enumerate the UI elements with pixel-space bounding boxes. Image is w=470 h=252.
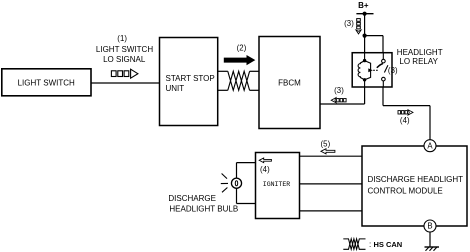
svg-text:IGNITER: IGNITER (263, 181, 290, 188)
svg-text:LO SIGNAL: LO SIGNAL (103, 55, 146, 64)
svg-text:DISCHARGE: DISCHARGE (168, 194, 216, 203)
svg-text:HEADLIGHT BULB: HEADLIGHT BULB (169, 205, 238, 214)
svg-text:LIGHT SWITCH: LIGHT SWITCH (96, 45, 153, 54)
svg-text:(3): (3) (344, 19, 354, 28)
svg-text:(5): (5) (320, 140, 330, 149)
svg-text:(4): (4) (260, 165, 270, 174)
svg-text:B+: B+ (358, 1, 369, 10)
svg-text:LO RELAY: LO RELAY (399, 57, 438, 66)
svg-text:(3): (3) (334, 86, 344, 95)
svg-text:B: B (427, 222, 432, 231)
svg-text:UNIT: UNIT (166, 84, 185, 93)
svg-text:CONTROL MODULE: CONTROL MODULE (368, 186, 443, 195)
svg-text:FBCM: FBCM (278, 79, 301, 88)
svg-text:(4): (4) (400, 116, 410, 125)
svg-text:(1): (1) (117, 34, 127, 43)
svg-text:A: A (427, 141, 433, 150)
svg-text:(2): (2) (237, 44, 247, 53)
svg-text:HEADLIGHT: HEADLIGHT (397, 48, 443, 57)
svg-text:DISCHARGE HEADLIGHT: DISCHARGE HEADLIGHT (368, 175, 464, 184)
svg-text:START STOP: START STOP (166, 74, 215, 83)
svg-text:LIGHT SWITCH: LIGHT SWITCH (18, 79, 75, 88)
svg-text:(3): (3) (388, 66, 398, 75)
svg-text:: HS CAN: : HS CAN (369, 240, 402, 249)
